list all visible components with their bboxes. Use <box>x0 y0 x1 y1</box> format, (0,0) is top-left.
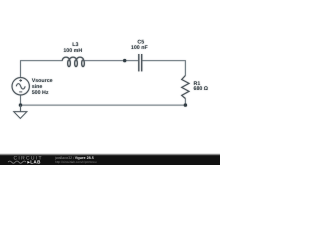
wire top rail right segment <box>142 61 186 76</box>
resistor R1 zigzag <box>182 76 189 99</box>
CircuitLab logo sine squiggle <box>8 161 26 163</box>
node junction dot source/ground <box>19 103 22 106</box>
source minus sign <box>19 91 22 93</box>
wire top rail left segment <box>21 61 63 78</box>
wire bottom rail <box>21 104 186 106</box>
wire source bottom lead <box>20 95 22 105</box>
node junction dot on top rail <box>123 59 126 62</box>
svg-text:680 Ω: 680 Ω <box>194 86 209 92</box>
ground stub wire <box>20 105 22 112</box>
watermark bar shadow fade <box>0 153 220 156</box>
ground symbol triangle <box>14 112 27 119</box>
svg-text:http://circuitlab.com/c/pm9cwu: http://circuitlab.com/c/pm9cwu <box>55 160 97 164</box>
wire right side down to bottom rail <box>184 99 186 106</box>
soft halo underlay <box>12 39 209 118</box>
node junction dot resistor bottom <box>184 103 187 106</box>
source plus sign <box>19 79 22 82</box>
capacitor C5 <box>139 54 142 71</box>
watermark black bar <box>0 156 220 166</box>
wire top rail middle segment <box>84 60 138 62</box>
svg-text:500 Hz: 500 Hz <box>32 90 49 96</box>
svg-text:100 mH: 100 mH <box>63 48 82 54</box>
source sine wave <box>16 84 25 89</box>
voltage source V1 circle <box>12 78 29 95</box>
svg-text:▸LAB: ▸LAB <box>27 160 42 165</box>
svg-text:100 nF: 100 nF <box>131 45 149 51</box>
white canvas <box>0 0 220 165</box>
inductor L3 <box>62 57 84 66</box>
